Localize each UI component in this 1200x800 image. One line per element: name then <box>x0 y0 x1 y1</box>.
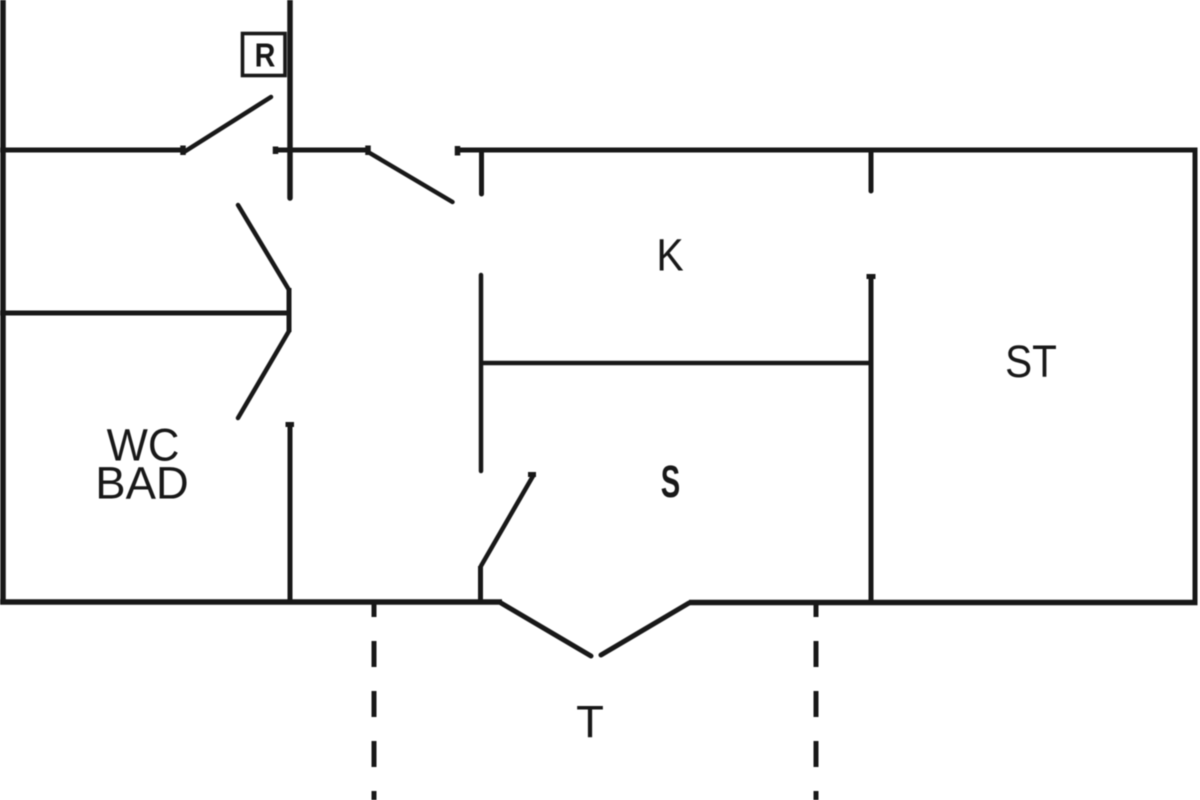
door leaf WC upper <box>238 205 289 290</box>
wall hall vertical top <box>287 0 293 198</box>
node R <box>255 37 276 74</box>
node S <box>661 457 680 508</box>
wall jamb stub S <box>478 566 483 602</box>
svg-text:ST: ST <box>1005 337 1057 388</box>
wall y150 middle segment <box>275 148 368 153</box>
svg-text:R: R <box>255 37 276 74</box>
wall right exterior <box>1193 148 1198 605</box>
wall K left lower <box>479 275 484 471</box>
node K <box>656 230 683 280</box>
wall WC right vertical <box>288 423 293 604</box>
door leaf S entrance <box>481 476 533 566</box>
svg-text:K: K <box>656 230 683 280</box>
wall jamb stub WC <box>287 288 292 332</box>
wall left exterior <box>0 0 6 604</box>
wall jamb stub K left top <box>479 152 484 194</box>
node WC <box>107 421 180 471</box>
wall jamb stub ST top <box>869 152 874 191</box>
svg-text:S: S <box>661 457 680 508</box>
door leaf WC lower <box>238 331 289 418</box>
wall y150 left segment <box>0 148 183 153</box>
wall bottom left <box>0 599 502 605</box>
wall bay diagonal right <box>601 603 689 655</box>
wall WC top <box>0 311 290 316</box>
dashed terrace line left <box>372 601 377 800</box>
wall bay diagonal left <box>501 603 591 656</box>
svg-text:T: T <box>576 696 604 747</box>
node ST <box>1005 337 1057 388</box>
wall y150 top of K and ST <box>458 148 1198 153</box>
dashed terrace line right <box>814 601 819 800</box>
door leaf K entrance <box>368 152 453 202</box>
wall bottom right <box>689 600 1198 606</box>
node R-box <box>243 34 286 76</box>
wall K-S divider <box>481 361 871 366</box>
door leaf hall-left <box>184 97 271 152</box>
wall ST left <box>869 275 874 604</box>
svg-text:BAD: BAD <box>95 457 189 508</box>
